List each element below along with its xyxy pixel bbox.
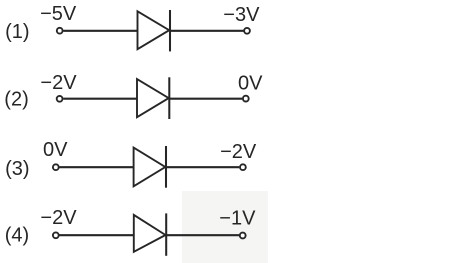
svg-text:−2V: −2V [220, 141, 257, 163]
svg-text:0V: 0V [43, 139, 68, 161]
wire (row 1 left segment) [63, 30, 137, 32]
wire (row 2 left segment) [63, 98, 137, 100]
wire (row 3 left segment) [60, 166, 134, 168]
svg-text:0V: 0V [238, 72, 263, 94]
svg-text:−1V: −1V [219, 208, 256, 230]
svg-text:(1): (1) [5, 21, 29, 43]
terminal node (right, row 1) [244, 28, 250, 34]
diode D3 cathode bar [165, 146, 167, 188]
svg-text:(2): (2) [4, 89, 28, 111]
terminal node (right, row 4) [240, 233, 246, 239]
terminal node (left, row 3) [53, 164, 59, 170]
diode D2 triangle (anode) [137, 79, 169, 117]
diode D1 triangle (anode) [138, 11, 170, 49]
svg-text:(3): (3) [5, 158, 29, 180]
svg-text:−2V: −2V [40, 207, 77, 229]
terminal node (left, row 2) [57, 96, 63, 102]
terminal node (right, row 2) [243, 96, 249, 102]
svg-text:−5V: −5V [40, 3, 77, 25]
terminal node (left, row 4) [53, 232, 59, 238]
diode D4 cathode bar [165, 213, 167, 255]
wire (row 4 left segment) [60, 234, 134, 236]
diode D3 triangle (anode) [134, 148, 166, 187]
shaded answer highlight behind option 4 [182, 191, 268, 263]
diode D2 cathode bar [168, 77, 170, 119]
wire (row 2 right segment) [169, 98, 242, 100]
diode D4 triangle (anode) [134, 215, 166, 252]
svg-text:−2V: −2V [40, 72, 77, 94]
wire (row 1 right segment) [170, 30, 244, 32]
diode D1 cathode bar [169, 10, 171, 51]
wire (row 3 right segment) [166, 166, 239, 168]
wire (row 4 right segment) [166, 234, 239, 236]
terminal node (left, row 1) [57, 28, 63, 34]
svg-text:−3V: −3V [223, 4, 260, 26]
terminal node (right, row 3) [240, 164, 246, 170]
svg-text:(4): (4) [5, 225, 29, 247]
